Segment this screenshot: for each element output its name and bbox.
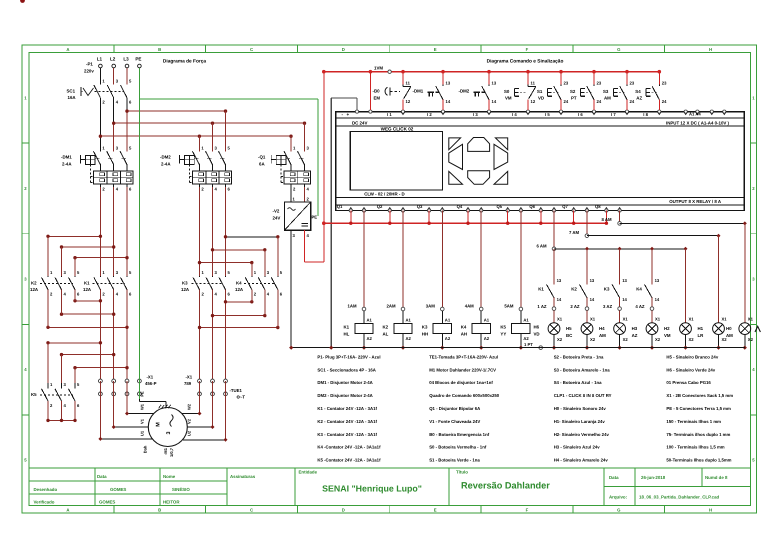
svg-text:-DM1: -DM1 (61, 155, 72, 160)
svg-text:DM2 - Disjuntor Motor 2-4A: DM2 - Disjuntor Motor 2-4A (317, 393, 372, 398)
contact S4 (658, 72, 660, 85)
svg-text:H4: H4 (599, 326, 605, 331)
svg-text:12: 12 (406, 99, 411, 104)
svg-text:Arquivo:: Arquivo: (609, 494, 628, 499)
svg-text:12A: 12A (30, 287, 39, 292)
svg-text:Diagrama Comando e Sinalização: Diagrama Comando e Sinalização (487, 59, 564, 65)
svg-text:K3: K3 (422, 325, 428, 330)
wire to H0 (718, 236, 720, 323)
svg-text:HH: HH (422, 331, 428, 336)
svg-text:C: C (250, 47, 253, 52)
svg-text:1/0,7: 1/0,7 (169, 447, 174, 457)
svg-text:H1- Sinaleiro Laranja 24v: H1- Sinaleiro Laranja 24v (554, 419, 606, 424)
svg-text:Numd de 8: Numd de 8 (705, 475, 728, 480)
svg-text:24V: 24V (273, 216, 281, 221)
svg-text:X2: X2 (590, 337, 596, 342)
svg-text:A1: A1 (523, 318, 529, 323)
svg-text:K1 - Contator 24V -12A - 3A1f: K1 - Contator 24V -12A - 3A1f (317, 406, 377, 411)
button S4 symbol (645, 89, 647, 97)
aux contact K4 13-14 (651, 249, 653, 284)
wire PE horizontal (139, 98, 318, 100)
motor M1 (148, 408, 187, 447)
svg-text:V1 - Fonte Chaveada 24V: V1 - Fonte Chaveada 24V (429, 419, 480, 424)
svg-text:Q7: Q7 (562, 204, 568, 209)
svg-text:A1: A1 (445, 318, 451, 323)
svg-text:24: 24 (630, 99, 635, 104)
aux contact K1 13-14 (553, 249, 555, 284)
button S1 symbol (547, 89, 549, 97)
svg-text:3 AZ: 3 AZ (603, 304, 613, 309)
svg-text:12A: 12A (181, 287, 190, 292)
svg-text:A1: A1 (484, 318, 490, 323)
PLC terminals A1-A4 (684, 110, 687, 113)
svg-text:24: 24 (662, 99, 667, 104)
svg-text:H: H (709, 508, 712, 513)
svg-text:X2: X2 (655, 337, 661, 342)
svg-text:LR: LR (698, 333, 705, 338)
PLC input terminal I5 (559, 110, 562, 113)
svg-text:E: E (434, 508, 437, 513)
svg-text:HL: HL (344, 331, 350, 336)
svg-text:K2 - Contator 24V -12A - 3A1f: K2 - Contator 24V -12A - 3A1f (317, 419, 377, 424)
contact S2 (593, 72, 595, 85)
svg-text:VM: VM (664, 333, 671, 338)
svg-text:INPUT 12 X DC ( A1-A4 0-10V ): INPUT 12 X DC ( A1-A4 0-10V ) (666, 121, 730, 126)
svg-text:456-P: 456-P (145, 381, 157, 386)
svg-text:P1- Plug 3P+T-16A- 220V - Azul: P1- Plug 3P+T-16A- 220V - Azul (317, 354, 380, 359)
svg-text:Diagrama de Força: Diagrama de Força (163, 59, 207, 65)
ruler column letters top (113, 45, 115, 53)
svg-text:I 6: I 6 (578, 112, 583, 117)
svg-text:K3 - Contator 24V -12A - 3A1f: K3 - Contator 24V -12A - 3A1f (317, 432, 377, 437)
wire K3 pole2 down (199, 290, 201, 381)
svg-text:D: D (342, 508, 345, 513)
output common stub (350, 211, 352, 224)
svg-text:GOMES: GOMES (99, 500, 115, 505)
svg-text:150 - Terminais Ilhos 1 mm: 150 - Terminais Ilhos 1 mm (666, 419, 721, 424)
bus row K5 pole 3 (62, 354, 114, 356)
svg-text:-DM1: -DM1 (413, 89, 424, 94)
wire to H1 (685, 249, 687, 323)
svg-text:K2: K2 (571, 287, 577, 292)
svg-text:X2: X2 (748, 337, 754, 342)
wire net 1AM (363, 211, 365, 308)
svg-text:Reversão Dahlander: Reversão Dahlander (461, 481, 550, 491)
breaker -DM2 body (192, 171, 231, 184)
svg-text:PT: PT (571, 96, 577, 101)
svg-text:Quadro de Comando 600x500x250: Quadro de Comando 600x500x250 (429, 393, 500, 398)
svg-text:-M1: -M1 (163, 447, 168, 455)
svg-text:01 Prensa Cabo PG16: 01 Prensa Cabo PG16 (666, 380, 711, 385)
svg-text:H2: H2 (664, 326, 670, 331)
svg-text:TE1-Tomada 3P+T-16A-220V- Azul: TE1-Tomada 3P+T-16A-220V- Azul (429, 354, 498, 359)
svg-text:1 PT: 1 PT (524, 342, 533, 347)
bus row to K2 pole 3 (62, 246, 114, 248)
svg-text:B: B (158, 47, 161, 52)
svg-text:K4 -Contator 24V -12A - 3A1a1f: K4 -Contator 24V -12A - 3A1a1f (317, 445, 381, 450)
svg-text:H0: H0 (726, 326, 732, 331)
svg-text:M1 Motor Dahlander 220V-1/.7CV: M1 Motor Dahlander 220V-1/.7CV (429, 367, 496, 372)
svg-text:H: H (709, 47, 712, 52)
SC1 operator handle (83, 88, 94, 96)
bus row K2 output 1 (75, 300, 100, 302)
wire 0V riser (330, 98, 332, 348)
svg-text:PE - 5 Conectores Terra 1,5 mm: PE - 5 Conectores Terra 1,5 mm (666, 406, 731, 411)
output common stub (507, 211, 509, 224)
svg-text:U1: U1 (140, 430, 145, 436)
contact S3 (626, 72, 628, 85)
svg-text:VD: VD (538, 96, 544, 101)
wire net 5AM (520, 211, 522, 308)
svg-text:VM: VM (505, 96, 512, 101)
svg-text:EM: EM (374, 96, 381, 101)
motor ground hatch (159, 405, 162, 409)
PLC input terminals (355, 110, 358, 113)
svg-text:PE: PE (140, 391, 145, 397)
svg-text:13: 13 (446, 81, 451, 86)
svg-text:Θ~T: Θ~T (237, 395, 246, 400)
svg-text:H2- Sinaleiro Vermelho 24v: H2- Sinaleiro Vermelho 24v (554, 432, 610, 437)
svg-text:B0 - Botoeira Emergencia 1nf: B0 - Botoeira Emergencia 1nf (429, 432, 490, 437)
svg-text:6 AM: 6 AM (537, 243, 548, 248)
svg-text:2-4A: 2-4A (161, 162, 171, 167)
svg-text:V2: V2 (187, 418, 192, 424)
bus row to K4 pole 1 (200, 262, 252, 264)
svg-text:CLP1 - CLICK 8 IN 8 OUT RY: CLP1 - CLICK 8 IN 8 OUT RY (554, 393, 612, 398)
svg-text:K2: K2 (383, 325, 389, 330)
output common stub (467, 211, 469, 224)
svg-text:1VM: 1VM (374, 65, 383, 70)
svg-text:K4: K4 (236, 281, 242, 286)
lamp H column 3 (619, 310, 621, 322)
svg-text:OUTPUT 8 X RELAY / 8 A: OUTPUT 8 X RELAY / 8 A (669, 199, 722, 204)
wire drop DM2 pole5 (225, 111, 227, 151)
svg-text:1 AZ: 1 AZ (537, 304, 547, 309)
svg-text:2AM: 2AM (387, 303, 396, 308)
wire DM1 out pole4 (113, 187, 115, 276)
output common stub (389, 211, 391, 224)
svg-text:K1: K1 (344, 325, 350, 330)
output common stub (605, 211, 607, 224)
wire L1 to DM1 (99, 98, 101, 152)
svg-text:H6: H6 (534, 325, 540, 330)
svg-text:-DM2: -DM2 (160, 155, 171, 160)
svg-text:I 4: I 4 (512, 112, 517, 117)
wire PE green (138, 68, 140, 99)
svg-text:Verificado: Verificado (34, 500, 55, 505)
svg-text:GOMES: GOMES (110, 487, 126, 492)
svg-text:K1: K1 (538, 287, 544, 292)
svg-text:Q1: Q1 (337, 204, 343, 209)
bus phase L2 to DM2/Q1 (114, 122, 305, 124)
svg-text:PE: PE (312, 214, 318, 219)
svg-text:V1: V1 (140, 418, 145, 424)
PLC input terminal I3 (487, 110, 490, 113)
bus 1VM (324, 71, 660, 73)
wire W1 (126, 381, 128, 414)
wire net 4AM (480, 211, 482, 308)
svg-text:S2 - Botoeira Preta - 1na: S2 - Botoeira Preta - 1na (554, 354, 604, 359)
svg-text:H6 - Sinaleiro Verde 24v: H6 - Sinaleiro Verde 24v (666, 367, 715, 372)
svg-text:X1: X1 (689, 317, 695, 322)
button S2 symbol (580, 89, 582, 97)
svg-text:8 AM: 8 AM (602, 217, 613, 222)
svg-text:DM1 - Disjuntor Motor 2-4A: DM1 - Disjuntor Motor 2-4A (317, 380, 372, 385)
svg-text:D: D (342, 47, 345, 52)
svg-text:AZ: AZ (632, 333, 638, 338)
svg-text:220v: 220v (84, 69, 94, 74)
svg-text:24: 24 (564, 99, 569, 104)
PLC CLP1 WEG CLICK 02 (336, 112, 745, 211)
svg-text:S0: S0 (504, 89, 510, 94)
svg-text:L3: L3 (123, 57, 129, 62)
svg-text:K1: K1 (84, 281, 90, 286)
wire PE down to V2 (317, 99, 319, 216)
svg-text:U2: U2 (187, 430, 192, 436)
svg-text:12: 12 (531, 99, 536, 104)
bus output common 24V (324, 222, 607, 224)
svg-text:X1: X1 (655, 317, 661, 322)
wire Q1 pole1 to V2 (290, 187, 292, 202)
svg-text:A2: A2 (406, 336, 412, 341)
svg-text:14: 14 (446, 99, 451, 104)
contact -B0 (402, 72, 404, 85)
svg-text:HEITOR: HEITOR (163, 500, 180, 505)
svg-text:100 - Terminais Ilhos 1,5 mm: 100 - Terminais Ilhos 1,5 mm (666, 445, 724, 450)
svg-text:C: C (250, 508, 253, 513)
wire W2 (199, 381, 201, 414)
svg-text:7 AM: 7 AM (569, 230, 580, 235)
svg-text:X1: X1 (748, 317, 754, 322)
wire K3 pole6 down (225, 290, 227, 381)
wire L2 drop (113, 68, 115, 85)
svg-text:13: 13 (492, 81, 497, 86)
svg-text:A: A (66, 508, 69, 513)
svg-text:K4: K4 (636, 287, 642, 292)
svg-text:I 1: I 1 (387, 112, 392, 117)
net 8AM (619, 211, 621, 224)
svg-text:2-4A: 2-4A (62, 162, 72, 167)
bus row to K4 pole 3 (213, 249, 265, 251)
wire drop Q1 pole1 (290, 136, 292, 151)
wire V2 (212, 381, 214, 427)
buzzer symbol (755, 326, 760, 332)
svg-text:SINÉSIO: SINÉSIO (172, 487, 190, 492)
svg-text:Data: Data (97, 474, 107, 479)
svg-text:-B0: -B0 (373, 89, 381, 94)
breaker -DM2 actuator symbol (179, 155, 181, 164)
svg-text:X1: X1 (722, 317, 728, 322)
svg-text:Título: Título (456, 470, 468, 475)
svg-text:I 7: I 7 (611, 112, 616, 117)
PLC keypad (449, 138, 508, 185)
svg-text:X2: X2 (557, 337, 563, 342)
wire Q1 pole3 to V2 (304, 187, 306, 202)
wire L1 drop (99, 68, 101, 85)
svg-text:14: 14 (655, 297, 660, 302)
svg-text:A1: A1 (406, 318, 412, 323)
svg-text:SC1 - Seccionadora 4P - 16A: SC1 - Seccionadora 4P - 16A (317, 367, 375, 372)
svg-text:I 8: I 8 (643, 112, 648, 117)
svg-text:H5: H5 (566, 326, 572, 331)
svg-text:S1 - Botoeira Verde - 1na: S1 - Botoeira Verde - 1na (429, 458, 480, 463)
svg-text:13: 13 (655, 278, 660, 283)
wire U1 (99, 381, 101, 439)
svg-text:A: A (66, 47, 69, 52)
svg-text:18_06_03_Partida_Dahlander_CLP: 18_06_03_Partida_Dahlander_CLP.cad (639, 494, 720, 499)
svg-text:VD: VD (534, 331, 540, 336)
contact S1 (560, 72, 562, 85)
button S3 symbol (613, 89, 615, 97)
wire DM2 out pole4 (212, 187, 214, 276)
bus 0V bottom (291, 347, 745, 349)
contact -DM1 (442, 72, 444, 85)
bus phase L1 to DM2/Q1 (100, 135, 291, 137)
wire drop DM2 pole3 (212, 123, 214, 151)
svg-text:-X1: -X1 (186, 375, 193, 380)
svg-text:K4: K4 (461, 325, 467, 330)
svg-text:23: 23 (564, 81, 569, 86)
svg-text:50-Terminais Ilhos duplo 1,5mm: 50-Terminais Ilhos duplo 1,5mm (666, 458, 731, 463)
svg-text:Assinaturas: Assinaturas (230, 474, 256, 479)
wire 1VM to PLC plus (369, 72, 371, 110)
svg-text:DC 24V: DC 24V (352, 121, 367, 126)
svg-text:K5 -Contator 24V -12A - 3A1a1f: K5 -Contator 24V -12A - 3A1a1f (317, 458, 381, 463)
PLC input terminal I7 (625, 110, 628, 113)
svg-text:3AM: 3AM (426, 303, 435, 308)
svg-text:23: 23 (630, 81, 635, 86)
K5 star bus (48, 419, 75, 421)
svg-text:L1: L1 (97, 57, 103, 62)
svg-text:-V2: -V2 (273, 209, 280, 214)
svg-text:S2: S2 (570, 89, 576, 94)
svg-text:Nome: Nome (163, 474, 176, 479)
svg-text:F: F (526, 508, 529, 513)
wire PE to motor (138, 68, 140, 399)
PLC input terminal I1 (401, 110, 404, 113)
bus row K2 output 2 (62, 313, 114, 315)
red corner dot (20, 0, 25, 3)
svg-text:I 5: I 5 (545, 112, 550, 117)
wire +24V from V2 pin4 (304, 230, 306, 262)
svg-text:H0 - Sinaleiro Sonoro 24v: H0 - Sinaleiro Sonoro 24v (554, 406, 607, 411)
svg-text:AM: AM (599, 333, 606, 338)
svg-text:Q8: Q8 (595, 204, 601, 209)
svg-text:SC1: SC1 (67, 89, 76, 94)
PLC input terminal I8 (658, 110, 661, 113)
svg-text:A2: A2 (484, 336, 490, 341)
svg-text:AM: AM (726, 333, 733, 338)
wire K1 pole6 down (126, 290, 128, 381)
svg-text:WEG CLICK 02: WEG CLICK 02 (381, 126, 414, 131)
svg-text:-DM2: -DM2 (459, 89, 470, 94)
wire to H7 buzzer lamp (744, 223, 746, 322)
svg-text:AH: AH (461, 331, 467, 336)
wire net 3AM (441, 211, 443, 308)
svg-text:BC: BC (566, 333, 573, 338)
wire drop Q1 pole3 (304, 123, 306, 151)
PLC display (350, 132, 442, 191)
svg-text:X1: X1 (623, 317, 629, 322)
wire drop DM2 pole1 (198, 136, 200, 151)
wire 0V from V2 pin3 (290, 230, 292, 347)
svg-text:14: 14 (557, 297, 562, 302)
bus row to K2 pole 1 (48, 235, 100, 237)
svg-text:23: 23 (597, 81, 602, 86)
svg-text:X2: X2 (689, 337, 695, 342)
svg-text:S4: S4 (635, 89, 641, 94)
output common stub (540, 211, 542, 224)
svg-text:Desenhado: Desenhado (34, 487, 58, 492)
svg-text:A2: A2 (367, 336, 373, 341)
output common stub (428, 211, 430, 224)
wire V1 (113, 381, 115, 427)
svg-text:789: 789 (184, 381, 192, 386)
svg-text:S3 - Botoeira Amarelo - 1na: S3 - Botoeira Amarelo - 1na (554, 367, 611, 372)
lamp H4 column 2 (586, 310, 588, 322)
net 7AM (586, 211, 588, 236)
svg-text:Q6: Q6 (529, 204, 535, 209)
svg-text:26-jun-2018: 26-jun-2018 (641, 475, 666, 480)
svg-text:S3: S3 (603, 89, 609, 94)
svg-text:4 AZ: 4 AZ (635, 304, 645, 309)
wire net 2AM (402, 211, 404, 308)
svg-text:X1 - 2B Conectores Sack 1,5 mm: X1 - 2B Conectores Sack 1,5 mm (666, 393, 733, 398)
wire U2 (225, 381, 227, 440)
B0 mushroom head (385, 87, 387, 95)
svg-text:4AM: 4AM (465, 303, 474, 308)
wire DM2 out pole6 (225, 187, 227, 276)
svg-text:X1: X1 (590, 317, 596, 322)
svg-text:13: 13 (622, 278, 627, 283)
bus row K4 output 3 (200, 327, 278, 329)
svg-text:Q4: Q4 (457, 204, 463, 209)
svg-text:AL: AL (383, 331, 389, 336)
svg-text:X1: X1 (557, 317, 563, 322)
svg-text:14: 14 (590, 297, 595, 302)
svg-text:-Q1: -Q1 (258, 155, 266, 160)
wire DM1 out pole2 (99, 187, 101, 276)
svg-text:X2: X2 (623, 337, 629, 342)
svg-text:13: 13 (590, 278, 595, 283)
svg-text:Q1 - Disjuntor Bipolar 6A: Q1 - Disjuntor Bipolar 6A (429, 406, 480, 411)
svg-text:CLW - 02 / 20HR - D: CLW - 02 / 20HR - D (364, 192, 405, 197)
svg-text:04 Blocos de disjuntor 1na+1nf: 04 Blocos de disjuntor 1na+1nf (429, 380, 493, 385)
svg-text:Entidade: Entidade (299, 470, 318, 475)
svg-text:YY: YY (500, 331, 506, 336)
svg-text:1AM: 1AM (348, 303, 357, 308)
svg-text:12A: 12A (83, 287, 92, 292)
svg-text:K3: K3 (182, 281, 188, 286)
svg-text:-P1: -P1 (86, 62, 93, 67)
svg-text:A1: A1 (367, 318, 373, 323)
PLC input terminal I6 (592, 110, 595, 113)
svg-text:13: 13 (557, 278, 562, 283)
lamp H column 4 (651, 310, 653, 322)
breaker -DM1 actuator symbol (80, 155, 82, 164)
wire L2 to DM1 (113, 98, 115, 123)
svg-text:K3: K3 (604, 287, 610, 292)
svg-text:14: 14 (492, 99, 497, 104)
inner frame (29, 53, 751, 506)
svg-text:23: 23 (662, 81, 667, 86)
svg-text:H4 - Sinaleiro Amarelo 24v: H4 - Sinaleiro Amarelo 24v (554, 458, 609, 463)
svg-text:A2: A2 (445, 336, 451, 341)
PLC input terminal I4 (526, 110, 529, 113)
svg-text:14: 14 (622, 297, 627, 302)
aux contact K3 13-14 (619, 249, 621, 284)
bus row K5 pole 1 (48, 342, 100, 344)
